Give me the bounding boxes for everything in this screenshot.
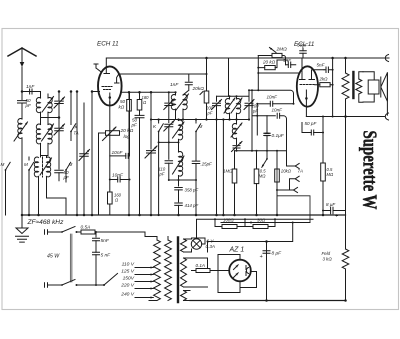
wire az1 right bbox=[240, 272, 257, 288]
wire field feed bbox=[277, 169, 310, 223]
heater winding top bbox=[181, 239, 192, 252]
wire AZ1 connections bbox=[218, 255, 240, 293]
power transformer HV winding bbox=[165, 237, 172, 301]
svg-text:10nF: 10nF bbox=[267, 95, 279, 100]
oscillator coil T3 bbox=[34, 156, 51, 182]
svg-text:10nF: 10nF bbox=[112, 173, 124, 179]
resistor 20kohm g2 bbox=[257, 60, 277, 70]
svg-text:45 W: 45 W bbox=[47, 254, 60, 260]
wire grid row left bbox=[92, 91, 176, 94]
wire osc bottom left bbox=[39, 182, 67, 215]
svg-text:1MΩ: 1MΩ bbox=[223, 169, 233, 174]
svg-text:M: M bbox=[1, 162, 5, 167]
wire pole2 to tap selector bbox=[95, 284, 97, 286]
wire row y119.5 bbox=[140, 119, 250, 121]
svg-text:+: + bbox=[260, 254, 264, 260]
wire x286.5 bbox=[286, 125, 288, 166]
capacitor 10nF af2 bbox=[109, 173, 131, 183]
svg-text:MΩ: MΩ bbox=[259, 174, 266, 179]
svg-text:Ω: Ω bbox=[143, 100, 147, 105]
svg-text:220 V: 220 V bbox=[120, 283, 135, 289]
antenna coil transformer T1 bbox=[36, 92, 53, 118]
wire ECH11 cathode column bbox=[109, 102, 111, 104]
switch K mid bbox=[153, 120, 163, 143]
svg-text:30Ω: 30Ω bbox=[257, 218, 266, 223]
wire antenna coupling bbox=[22, 91, 41, 93]
wire coils to bus row bbox=[41, 148, 49, 155]
capacitor det trimmer bbox=[232, 142, 243, 152]
fuse 0.1A bbox=[192, 242, 219, 273]
transformer core bar bbox=[177, 238, 179, 303]
wire ECH11 grid cap terminal bbox=[94, 64, 101, 72]
field coil Feld 3k bbox=[322, 215, 349, 301]
svg-text:MΩ: MΩ bbox=[327, 172, 334, 177]
svg-text:5 nF: 5 nF bbox=[101, 253, 112, 259]
wire left block rows bbox=[41, 141, 72, 167]
svg-text:7A: 7A bbox=[298, 169, 303, 174]
power transformer primary winding bbox=[154, 240, 161, 301]
capacitor 10nF c2 bbox=[252, 108, 287, 126]
svg-text:0.3A: 0.3A bbox=[206, 244, 215, 249]
wire rail drop to IF2 bbox=[228, 58, 230, 96]
svg-text:10nF: 10nF bbox=[272, 108, 284, 113]
svg-text:0.5A: 0.5A bbox=[81, 224, 91, 230]
mains terminals pole1 bbox=[45, 230, 52, 234]
svg-text:M: M bbox=[69, 162, 73, 167]
wire heater row y222.5 bbox=[221, 222, 310, 224]
resistor 100ohm bbox=[215, 218, 245, 229]
svg-text:20 kΩ: 20 kΩ bbox=[120, 128, 134, 134]
svg-text:10nF: 10nF bbox=[112, 150, 124, 156]
svg-text:Ω: Ω bbox=[115, 198, 119, 203]
svg-text:0.1μF: 0.1μF bbox=[272, 133, 285, 139]
svg-text:K: K bbox=[153, 124, 157, 129]
svg-text:pF: pF bbox=[207, 111, 213, 116]
svg-text:pF: pF bbox=[25, 103, 33, 108]
tap selector arm bbox=[96, 274, 118, 286]
switch M left bbox=[1, 162, 11, 215]
antenna bbox=[8, 48, 36, 92]
svg-text:ECH 11: ECH 11 bbox=[97, 41, 119, 48]
resistor 0.5Mohm det bbox=[254, 151, 266, 215]
resistor 0.5Mohm out bbox=[321, 117, 334, 216]
connector right mid bbox=[385, 113, 388, 120]
svg-text:M: M bbox=[24, 162, 28, 167]
svg-text:110 V: 110 V bbox=[122, 262, 135, 268]
trimmer capacitor osc pad bbox=[164, 120, 175, 143]
wire vertical x84 bbox=[83, 103, 85, 215]
capacitor 5nF grid bbox=[283, 58, 296, 67]
switch M second bbox=[24, 157, 34, 215]
wire x158.6 to bus bbox=[158, 142, 160, 215]
wire lamp top bbox=[192, 238, 206, 252]
fuse 0.5A bbox=[81, 224, 106, 234]
svg-text:100Ω: 100Ω bbox=[223, 218, 234, 223]
wire ECH11 triode anode bbox=[119, 73, 207, 75]
wire B+ down bbox=[266, 242, 268, 301]
resistor 2kohm bbox=[315, 77, 334, 87]
IF transformer T4 coil right bbox=[176, 94, 189, 120]
capacitor 0.1uF bbox=[264, 116, 285, 151]
svg-text:1nF: 1nF bbox=[26, 84, 35, 90]
svg-text:20kΩ: 20kΩ bbox=[280, 169, 292, 174]
capacitor 5nF line1 bbox=[93, 231, 110, 251]
wire psu bottom bus bbox=[190, 300, 346, 302]
tuning gang capacitor 1 bbox=[145, 91, 157, 215]
tap 150V bbox=[123, 276, 154, 283]
oscillator coil B bbox=[173, 142, 185, 180]
svg-text:0.1A: 0.1A bbox=[196, 263, 205, 268]
wire x258.3 bbox=[257, 56, 259, 91]
wire heater row y219.2 bbox=[197, 219, 314, 239]
speaker bbox=[363, 72, 387, 115]
wire vertical x92 bbox=[91, 92, 93, 216]
svg-text:1nF: 1nF bbox=[170, 82, 179, 88]
main ground bus bbox=[22, 214, 346, 216]
svg-text:50: 50 bbox=[120, 99, 126, 104]
svg-text:M: M bbox=[199, 124, 203, 129]
wire IF2 top bbox=[217, 95, 250, 97]
capacitor 5nF line2 bbox=[93, 251, 112, 286]
output transformer primary bbox=[342, 58, 349, 215]
svg-text:.25pF: .25pF bbox=[201, 162, 213, 167]
jack TA contact 3 bbox=[276, 187, 298, 192]
svg-text:5nF: 5nF bbox=[317, 63, 326, 68]
oscillator coil A bbox=[173, 120, 185, 143]
wire triode grid lead bbox=[258, 72, 299, 74]
svg-text:125 V: 125 V bbox=[121, 269, 135, 275]
capacitor 10nF af1 bbox=[110, 150, 130, 158]
capacitor 50pF osc bbox=[55, 166, 70, 181]
wire x196 to bus bbox=[195, 180, 197, 215]
svg-text:TA: TA bbox=[74, 131, 79, 136]
svg-text:AZ 1: AZ 1 bbox=[229, 247, 245, 254]
svg-text:ZF≈468 kHz: ZF≈468 kHz bbox=[27, 219, 65, 226]
capacitor 5nF out bbox=[317, 63, 334, 73]
svg-text:3 kΩ: 3 kΩ bbox=[323, 257, 333, 262]
wire ECL cathode down bbox=[305, 99, 307, 117]
wire bbox=[48, 117, 59, 119]
resistor 30ohm bbox=[245, 218, 275, 229]
wire row to connector bbox=[346, 116, 386, 118]
wire antenna column to bus bbox=[21, 145, 23, 215]
capacitor 50uF cathode bbox=[297, 43, 309, 59]
capacitor 25pF bbox=[192, 161, 212, 180]
svg-text:5nF: 5nF bbox=[101, 238, 110, 244]
capacitor 200pF if2b bbox=[244, 96, 259, 119]
inductor antenna variable bbox=[14, 112, 28, 145]
svg-text:20 kΩ: 20 kΩ bbox=[262, 60, 276, 65]
svg-text:8 μF: 8 μF bbox=[326, 202, 336, 207]
tap 240 V bbox=[120, 292, 153, 299]
wire avc row bbox=[249, 90, 294, 104]
svg-text:8 μF: 8 μF bbox=[272, 251, 283, 257]
capacitor 358pF bbox=[175, 180, 199, 202]
jack TA contact 2 bbox=[290, 176, 300, 190]
wire ECH11 anode to top rail bbox=[106, 58, 389, 67]
tube ECL11 bbox=[297, 66, 318, 106]
wire ECL11 anode top bbox=[301, 58, 303, 75]
detector coil bbox=[231, 120, 242, 145]
wire avc vertical bbox=[251, 90, 253, 151]
output transformer core bbox=[352, 72, 354, 98]
wire to transformer primary top bbox=[106, 232, 158, 240]
resistor 20k af bbox=[275, 151, 292, 215]
wire primary bottom bbox=[149, 300, 157, 302]
capacitor 8uF psu bbox=[260, 251, 283, 261]
svg-text:pF: pF bbox=[131, 123, 139, 128]
trimmer capacitor Ct2 bbox=[54, 118, 65, 141]
tube AZ1 bbox=[229, 255, 251, 287]
resistor 50kohm bbox=[119, 91, 132, 215]
wire row y116.5 bbox=[306, 116, 345, 118]
trimmer capacitor osc trim bbox=[164, 91, 175, 119]
node rail-transformer bbox=[344, 57, 347, 60]
node antenna junction bbox=[21, 90, 24, 93]
capacitor 50pF antenna bbox=[18, 92, 33, 113]
wire x332.6 bbox=[332, 58, 334, 117]
switch link dashed bbox=[70, 234, 72, 282]
svg-text:150V: 150V bbox=[123, 276, 135, 282]
capacitor 414pF bbox=[175, 203, 199, 215]
wire row y180 bbox=[169, 179, 196, 181]
svg-text:240 V: 240 V bbox=[120, 292, 135, 298]
band coil transformer T2 bbox=[36, 118, 53, 149]
ground symbol bbox=[16, 215, 29, 242]
svg-text:50 pF: 50 pF bbox=[305, 121, 318, 126]
wire row y142.4 bbox=[159, 141, 179, 143]
capacitor 50pF screen bbox=[131, 115, 145, 215]
wire x257.3 bbox=[256, 104, 258, 135]
tap 220 V bbox=[120, 283, 153, 290]
switch M mid bbox=[195, 120, 202, 161]
IF transformer T4 coil left bbox=[171, 91, 176, 119]
resistor 160ohm bbox=[108, 192, 122, 215]
mains terminals pole2 bbox=[45, 283, 52, 287]
resistor 180ohm bbox=[137, 91, 149, 115]
svg-text:kΩ: kΩ bbox=[119, 105, 125, 110]
switch af volume bbox=[262, 151, 268, 168]
capacitor 50pF fb bbox=[302, 121, 324, 135]
IF transformer T6 coil left bbox=[224, 96, 235, 119]
IF transformer T6 coil right bbox=[231, 96, 242, 119]
wire B+ row bbox=[208, 241, 267, 243]
wire vertical x77 bbox=[76, 92, 78, 216]
svg-text:Superette W: Superette W bbox=[359, 131, 380, 210]
connector right top bbox=[385, 55, 388, 62]
capacitor 1nF osc grid bbox=[170, 74, 192, 95]
pilot lamp bbox=[191, 238, 215, 252]
tube ECH11 bbox=[98, 66, 122, 105]
capacitor 200pF if2a bbox=[205, 96, 222, 119]
heater winding bottom bbox=[181, 291, 191, 301]
jack TA contact 1 bbox=[287, 163, 303, 173]
wire heater feed verticals bbox=[217, 120, 224, 216]
capacitor 10nF c1 bbox=[256, 95, 294, 107]
switch K TA bbox=[70, 92, 79, 141]
capacitor 8uF field bbox=[322, 202, 346, 220]
svg-text:2MΩ: 2MΩ bbox=[276, 47, 288, 53]
wire ECL11 pentode anode out bbox=[312, 70, 325, 76]
svg-text:Feld: Feld bbox=[322, 251, 331, 256]
switch M third bbox=[65, 162, 72, 182]
heater winding mid bbox=[181, 258, 208, 287]
wire det af row bbox=[235, 150, 287, 152]
trimmer capacitor Ct3 bbox=[79, 150, 90, 161]
trimmer capacitor Ct1 bbox=[54, 92, 65, 118]
tap 125 V bbox=[121, 269, 153, 276]
switch mains pole2 bbox=[52, 280, 96, 287]
wire 10nF junctions bbox=[129, 92, 131, 179]
resistor 20k osc bbox=[192, 57, 209, 120]
switch mains pole1 bbox=[52, 227, 82, 234]
svg-text:pF: pF bbox=[159, 172, 165, 177]
capacitor 1nF antenna bbox=[26, 84, 35, 94]
wire x249 bbox=[248, 90, 250, 96]
resistor 2Mohm bbox=[258, 47, 287, 61]
wire cathode column bbox=[109, 102, 111, 192]
wire row y117.5 bbox=[41, 117, 49, 119]
svg-text:2kΩ: 2kΩ bbox=[319, 77, 329, 82]
wire b+ up bbox=[267, 223, 293, 242]
potentiometer 20k log bbox=[99, 127, 134, 215]
output transformer secondary bbox=[356, 72, 363, 102]
capacitor 110pF bbox=[159, 142, 173, 180]
resistor 1Mohm bbox=[223, 151, 237, 215]
svg-text:20kΩ: 20kΩ bbox=[192, 86, 205, 92]
tap 110 V bbox=[122, 262, 154, 269]
